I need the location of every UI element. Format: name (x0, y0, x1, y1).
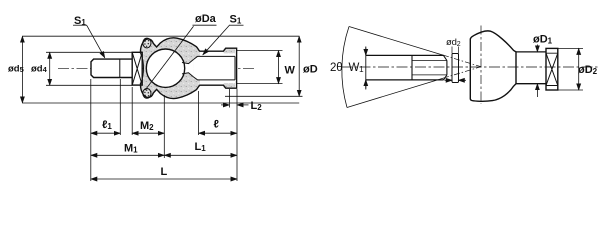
thread runout stipple bottom (224, 83, 235, 88)
S1 left leader (87, 25, 105, 57)
mouth edge (141, 53, 144, 83)
svg-text:ød2: ød2 (446, 37, 461, 48)
svg-text:L1: L1 (195, 141, 207, 153)
extension line bottom od5 (22, 102, 299, 104)
svg-text:øDa: øDa (195, 13, 217, 25)
centerline left view (58, 67, 256, 69)
dimension M2 (132, 132, 164, 134)
ball white fill (146, 49, 184, 87)
oDa leader through ball (145, 26, 193, 90)
oD2 extension top (558, 47, 583, 49)
notch white bottom (153, 89, 161, 97)
svg-text:ℓ1: ℓ1 (102, 119, 112, 131)
rod right view (366, 55, 444, 80)
dimension d2 arrows (445, 79, 453, 81)
curl blob top (143, 38, 151, 48)
dimension W1 (365, 47, 367, 90)
stud rod left (91, 59, 132, 77)
S1 right underline (229, 24, 244, 26)
svg-text:ℓ: ℓ (214, 119, 219, 131)
svg-text:øD: øD (303, 64, 318, 76)
bearing box (546, 48, 558, 90)
bottom extension l-left (198, 91, 200, 135)
dimension L (91, 178, 237, 180)
dimension od4 (49, 52, 51, 85)
svg-text:ød4: ød4 (31, 63, 48, 74)
svg-text:W1: W1 (349, 62, 365, 74)
neck d1 (516, 52, 546, 84)
bottom extension thread-end (119, 79, 121, 135)
rod thread right view (412, 55, 447, 80)
coupler X (132, 52, 142, 85)
L2 extension right / end (236, 89, 238, 181)
dimension od5 (21, 36, 23, 103)
centerline right view (341, 66, 599, 68)
svg-text:L2: L2 (251, 100, 263, 112)
svg-text:M2: M2 (140, 120, 154, 132)
dimension L2 arrows (221, 104, 229, 106)
svg-text:S1: S1 (230, 14, 242, 26)
svg-text:M1: M1 (124, 143, 138, 155)
extension line top (od5/oD shared) (22, 35, 299, 37)
L2 extension left (228, 89, 230, 108)
svg-text:øD1: øD1 (533, 34, 553, 46)
curl blob bottom (143, 89, 151, 99)
bottom extension rod-left (90, 79, 92, 181)
dimension oD2 (578, 48, 580, 90)
dimension l1 (91, 132, 121, 134)
bottom extension box-left (131, 87, 133, 135)
notch white top (153, 39, 161, 47)
bore white (194, 56, 237, 80)
neck outline (182, 59, 194, 77)
housing outline stroke (140, 38, 236, 99)
dimension oD (298, 36, 300, 96)
svg-text:øD2: øD2 (578, 64, 598, 76)
W extension top (237, 50, 283, 52)
fan line bottom (347, 78, 443, 107)
W extension bottom (237, 83, 283, 85)
rod thread root lines (412, 61, 447, 75)
bore outline (194, 56, 235, 80)
thread end line (119, 59, 121, 77)
svg-text:2θ: 2θ (330, 62, 342, 74)
bearing X (546, 53, 558, 85)
S1 left underline (73, 24, 87, 26)
washer d2 (452, 54, 459, 83)
dimension L1 (164, 154, 237, 156)
dimension W (278, 51, 280, 84)
S1 right leader (203, 25, 230, 54)
shank white body (200, 51, 237, 85)
dimension M1 (91, 154, 165, 156)
dimension l (199, 132, 237, 134)
extension line od4 bottom (46, 84, 132, 86)
centerline ball vertical (165, 44, 167, 93)
extension line od4 top (46, 51, 132, 53)
svg-text:L: L (161, 166, 168, 178)
svg-text:S1: S1 (74, 15, 86, 27)
oDa underline (193, 24, 217, 26)
fan line top (349, 27, 443, 56)
oD2 extension bottom (558, 89, 583, 91)
bearing races (546, 53, 558, 85)
svg-text:W: W (285, 65, 296, 77)
dimension D1 (536, 45, 538, 52)
bottom extension ball-center (163, 95, 165, 158)
ball outline (146, 49, 184, 87)
housing silhouette (140, 38, 236, 99)
centerline dome vertical (480, 26, 482, 104)
thread runout stipple top (224, 49, 235, 54)
neck white (182, 59, 194, 77)
svg-text:ød5: ød5 (8, 63, 24, 74)
fan arc (342, 27, 349, 108)
dome housing (470, 31, 516, 101)
coupler box (132, 52, 142, 85)
oD bottom extension (225, 95, 303, 97)
